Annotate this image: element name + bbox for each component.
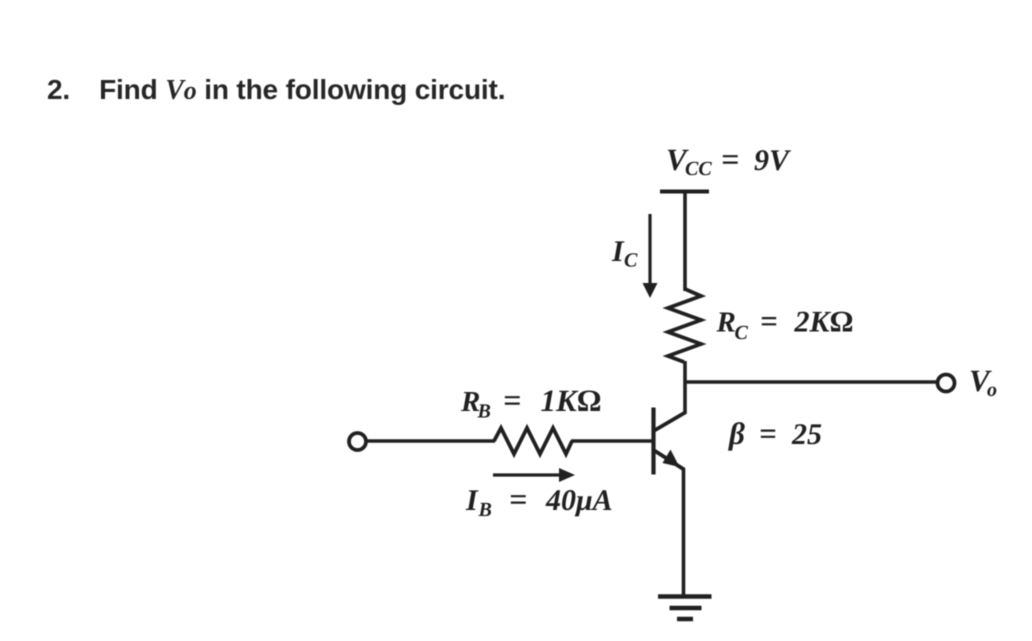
collector lead <box>654 412 687 431</box>
label IB = 40uA <box>465 481 613 521</box>
svg-text:2KΩ: 2KΩ <box>794 306 854 339</box>
svg-text:β: β <box>728 416 745 451</box>
svg-text:9V: 9V <box>754 144 792 177</box>
transistor Q1 <box>654 408 687 475</box>
svg-text:C: C <box>624 250 638 272</box>
current arrow IC <box>643 214 658 298</box>
resistor RB <box>494 428 572 454</box>
label VCC = 9V <box>666 141 792 180</box>
svg-text:I: I <box>465 484 479 517</box>
label Vo <box>969 363 997 401</box>
label RC = 2KOhm <box>716 304 854 345</box>
wire VCC bar to resistor RC <box>683 192 687 292</box>
svg-text:B: B <box>477 401 491 423</box>
emitter arrowhead <box>663 450 680 468</box>
label IC <box>611 235 638 272</box>
wire collector node to terminal Vo <box>684 380 937 383</box>
svg-text:=: = <box>721 141 739 177</box>
title <box>47 74 505 107</box>
wire emitter to ground <box>682 468 686 597</box>
resistor RC <box>668 289 701 362</box>
svg-text:1KΩ: 1KΩ <box>541 383 602 418</box>
power supply VCC bar <box>660 190 709 194</box>
terminal Vo <box>938 375 955 392</box>
svg-text:R: R <box>716 307 736 339</box>
wire resistor RB to base <box>571 439 652 442</box>
base bar <box>651 408 655 475</box>
current arrow IB <box>493 468 575 482</box>
svg-text:=: = <box>759 416 777 451</box>
wire resistor RC to collector node <box>683 361 687 413</box>
wire input terminal to resistor RB <box>367 439 496 442</box>
svg-text:=: = <box>509 481 527 517</box>
svg-text:C: C <box>735 322 749 344</box>
ground <box>658 597 712 620</box>
svg-text:CC: CC <box>685 158 712 180</box>
label RB = 1KOhm <box>460 382 602 423</box>
label beta = 25 <box>728 416 822 451</box>
svg-text:I: I <box>611 235 625 268</box>
svg-text:25: 25 <box>791 418 822 451</box>
terminal input <box>349 433 366 450</box>
emitter lead <box>654 450 685 470</box>
svg-text:o: o <box>987 379 997 401</box>
svg-text:B: B <box>478 499 492 521</box>
svg-text:=: = <box>503 382 521 418</box>
svg-text:=: = <box>760 304 778 339</box>
svg-text:40μA: 40μA <box>545 484 613 517</box>
